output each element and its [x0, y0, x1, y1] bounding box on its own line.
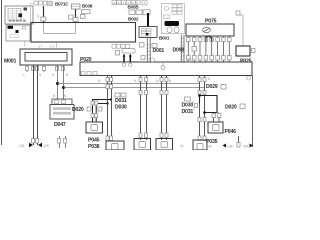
svg-text:D030: D030 [115, 105, 127, 111]
svg-text:D020: D020 [225, 105, 237, 111]
svg-text:44: 44 [180, 144, 184, 148]
svg-text:02A: 02A [243, 145, 250, 149]
svg-text:M001: M001 [4, 59, 16, 65]
svg-text:02A: 02A [206, 145, 213, 149]
svg-text:D098: D098 [173, 48, 185, 54]
svg-text:0: 0 [193, 100, 195, 104]
svg-text:108: 108 [44, 144, 50, 148]
svg-text:B05B: B05B [128, 5, 140, 10]
svg-text:10B: 10B [227, 145, 233, 149]
svg-text:D001: D001 [153, 48, 165, 54]
svg-text:106: 106 [19, 144, 25, 148]
svg-text:D047: D047 [54, 122, 66, 128]
svg-text:A: A [113, 1, 115, 5]
svg-text:P038: P038 [88, 144, 100, 150]
svg-text:2 7: 2 7 [38, 45, 43, 49]
svg-text:P045: P045 [88, 138, 100, 144]
svg-text:A: A [118, 1, 120, 5]
svg-text:A: A [144, 1, 146, 5]
svg-text:A: A [132, 1, 134, 5]
svg-text:1: 1 [23, 73, 25, 77]
svg-text:2 7: 2 7 [50, 45, 55, 49]
svg-text:D031: D031 [115, 98, 127, 104]
svg-text:P075: P075 [205, 18, 217, 24]
svg-text:D029: D029 [206, 84, 218, 90]
svg-text:D020: D020 [72, 107, 84, 113]
svg-text:B002: B002 [128, 16, 139, 21]
svg-text:7: 7 [25, 20, 27, 24]
svg-text:B001: B001 [159, 36, 170, 41]
svg-text:B071C: B071C [55, 2, 69, 7]
svg-text:B038: B038 [82, 4, 93, 9]
svg-text:P046: P046 [225, 129, 237, 135]
svg-text:1: 1 [193, 107, 195, 111]
